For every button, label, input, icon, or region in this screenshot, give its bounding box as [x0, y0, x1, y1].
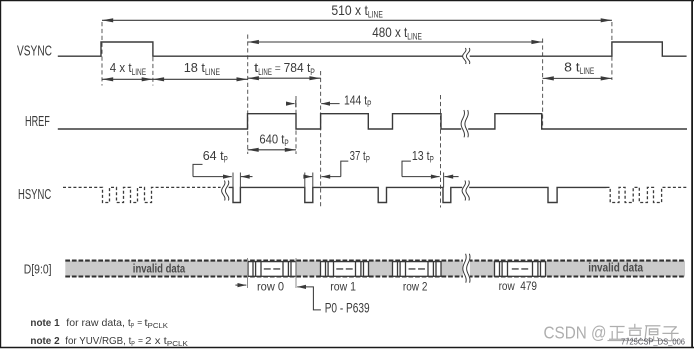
- svg-text:row 2: row 2: [403, 279, 428, 293]
- svg-text:P0 - P639: P0 - P639: [325, 301, 370, 316]
- svg-text:LINE: LINE: [407, 31, 422, 41]
- svg-text:13 t: 13 t: [412, 148, 430, 163]
- svg-text:P: P: [284, 138, 288, 148]
- svg-text:invalid data: invalid data: [588, 261, 643, 275]
- svg-text:37 t: 37 t: [350, 148, 366, 163]
- svg-text:LINE: LINE: [368, 10, 383, 20]
- svg-text:=: =: [275, 63, 281, 74]
- svg-text:P: P: [131, 321, 134, 330]
- svg-text:P: P: [224, 154, 228, 164]
- svg-text:7725CSP_DS_006: 7725CSP_DS_006: [621, 337, 685, 346]
- svg-text:LINE: LINE: [132, 67, 147, 77]
- svg-text:480 x t: 480 x t: [372, 25, 407, 40]
- svg-text:784 t: 784 t: [284, 60, 311, 75]
- svg-text:CSDN @: CSDN @: [544, 322, 607, 342]
- svg-text:note 1: note 1: [30, 318, 59, 329]
- svg-text:D[9:0]: D[9:0]: [24, 261, 52, 276]
- svg-text:row 479: row 479: [499, 279, 538, 293]
- svg-text:64 t: 64 t: [203, 148, 224, 163]
- svg-text:row 1: row 1: [330, 279, 356, 293]
- svg-text:HSYNC: HSYNC: [18, 187, 51, 203]
- svg-text:PCLK: PCLK: [148, 321, 168, 330]
- svg-text:HREF: HREF: [25, 114, 50, 130]
- svg-text:P: P: [131, 339, 135, 348]
- svg-text:P: P: [430, 154, 434, 164]
- svg-text:P: P: [366, 154, 370, 164]
- svg-text:LINE: LINE: [258, 67, 272, 77]
- svg-text:PCLK: PCLK: [167, 339, 188, 348]
- svg-text:8 t: 8 t: [564, 60, 580, 75]
- svg-text:4 x t: 4 x t: [110, 60, 132, 75]
- svg-text:VSYNC: VSYNC: [17, 43, 52, 59]
- svg-text:18 t: 18 t: [184, 60, 206, 75]
- svg-text:LINE: LINE: [580, 66, 595, 76]
- svg-text:for raw data, t: for raw data, t: [66, 318, 131, 329]
- svg-text:144 t: 144 t: [344, 92, 367, 107]
- svg-text:for YUV/RGB, t: for YUV/RGB, t: [65, 336, 131, 347]
- svg-text:P: P: [310, 67, 315, 77]
- svg-text:note 2: note 2: [30, 336, 59, 347]
- svg-text:640 t: 640 t: [259, 131, 284, 146]
- svg-text:row 0: row 0: [257, 279, 284, 293]
- svg-text:P: P: [367, 99, 371, 109]
- svg-text:2 x t: 2 x t: [145, 336, 167, 347]
- svg-text:510 x t: 510 x t: [331, 3, 368, 18]
- svg-text:=: =: [137, 318, 142, 327]
- svg-text:=: =: [138, 336, 143, 345]
- svg-text:invalid data: invalid data: [133, 261, 186, 275]
- svg-text:LINE: LINE: [205, 67, 220, 77]
